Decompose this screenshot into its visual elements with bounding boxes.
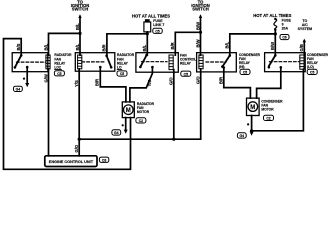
relay K2 coil xyxy=(78,55,82,69)
relay K5 switch arm xyxy=(269,55,275,66)
wire: branch to fan control relay coil xyxy=(175,32,200,55)
svg-text:RELAY: RELAY xyxy=(180,62,192,66)
label: CONDENSER FAN RELAY (HI) xyxy=(239,53,261,69)
node: TO IGNITION SWITCH (left) label xyxy=(71,0,90,12)
connector: C5 relay K3 xyxy=(181,71,191,76)
relay K4 switch pin dot xyxy=(229,54,232,57)
relay K3 switch arm xyxy=(140,55,146,67)
fuse: FUSE LINK 7 cap xyxy=(145,19,150,22)
svg-text:B/W: B/W xyxy=(195,22,200,30)
svg-text:C5: C5 xyxy=(155,29,159,33)
svg-text:20A: 20A xyxy=(282,27,289,31)
relay K1 switch pin dot xyxy=(20,54,23,57)
relay K3 dashed link xyxy=(142,61,168,63)
svg-text:SWITCH: SWITCH xyxy=(192,7,209,12)
wire: relay K1 coil to ECU G/W xyxy=(48,69,50,156)
junction: ignition2 / fan control relay coil branch xyxy=(199,31,202,34)
label: RADIATOR FAN RELAY LO2 xyxy=(54,53,72,70)
svg-text:B/R: B/R xyxy=(102,44,107,51)
node: TO A/C SYSTEM label xyxy=(298,19,312,31)
relay K1 dashed link xyxy=(17,61,46,63)
connector: C2 condenser fan motor xyxy=(264,115,274,120)
svg-text:LINK 7: LINK 7 xyxy=(153,23,164,27)
svg-text:LO2: LO2 xyxy=(54,66,61,70)
connector: C5 relay K5 xyxy=(307,69,317,74)
ground: splice dot near condenser motor ground xyxy=(247,123,249,125)
svg-text:Y/S: Y/S xyxy=(74,80,79,87)
svg-text:C2: C2 xyxy=(266,117,270,121)
ground: splice dot near K1 ground xyxy=(23,78,25,80)
wire: A/C system arrow up xyxy=(303,39,306,43)
svg-text:LO: LO xyxy=(117,66,122,70)
svg-text:B/L: B/L xyxy=(225,41,230,48)
motor M2 circle xyxy=(248,102,258,112)
svg-text:C2: C2 xyxy=(139,119,143,123)
relay K5: CONDENSER FAN RELAY (LO) box xyxy=(265,53,306,72)
fuse: FUSE LINK 7 body xyxy=(144,22,151,32)
svg-text:B/W: B/W xyxy=(195,39,200,47)
label: CONDENSER FAN MOTOR xyxy=(261,100,283,112)
relay K5 switch arm end dot xyxy=(268,66,271,69)
ground: arrow under radiator motor xyxy=(124,130,128,134)
wire: branch to condenser fan relay HI switch xyxy=(230,34,275,56)
junction: condenser ground bus xyxy=(250,129,253,132)
svg-text:B/R: B/R xyxy=(218,77,223,84)
relay K4: CONDENSER FAN RELAY (HI) box xyxy=(197,53,237,72)
svg-text:G/O: G/O xyxy=(196,76,201,84)
svg-text:B/R: B/R xyxy=(170,42,175,49)
wire: ignition feed 1 vertical B/L to radiator fan relay LO coil xyxy=(79,17,81,56)
label: FUSE LINK 7 xyxy=(153,19,164,27)
svg-text:B/L: B/L xyxy=(75,23,80,30)
wire: ignition feed 2 vertical B/W to condenser fan relay HI coil xyxy=(200,17,202,56)
svg-text:B/R: B/R xyxy=(95,79,100,86)
svg-text:B/L: B/L xyxy=(142,44,147,51)
wire: radiator motor ground lead xyxy=(125,118,127,130)
relay K3 switch pin dot xyxy=(145,54,148,57)
relay K5 coil xyxy=(300,55,304,69)
wire: relay K2 contact down-right to radiator fan motor B/R xyxy=(100,67,126,102)
svg-text:G/O: G/O xyxy=(74,144,79,152)
junction: fuse9 / condenser relay feeds xyxy=(274,32,277,35)
svg-text:B/W: B/W xyxy=(270,42,275,50)
relay K4 coil xyxy=(199,55,203,69)
svg-text:ENGINE CONTROL UNIT: ENGINE CONTROL UNIT xyxy=(49,160,94,164)
relay K3: FAN CONTROL RELAY box xyxy=(136,53,178,72)
relay K2 contact dot xyxy=(99,66,102,69)
svg-text:C6: C6 xyxy=(282,36,286,40)
svg-text:G4: G4 xyxy=(240,134,245,138)
wire: condenser motor ground lead xyxy=(251,116,253,131)
relay K2 switch arm xyxy=(107,56,112,68)
svg-text:B/L: B/L xyxy=(75,43,80,50)
relay K4 contact dot xyxy=(223,66,226,69)
motor M1: RADIATOR FAN MOTOR box xyxy=(122,102,134,118)
motor M1 circle xyxy=(124,105,134,115)
svg-text:(LO): (LO) xyxy=(307,65,314,69)
wire: ECU bus horizontal xyxy=(79,138,201,140)
junction: fuse link / relay feeds xyxy=(146,32,149,35)
wire: branch to radiator fan relay LO switch xyxy=(107,34,147,56)
wire: ignition feed 2 arrow up xyxy=(199,14,202,18)
relay K2 dashed link xyxy=(82,61,105,63)
relay K2 switch pin dot xyxy=(105,55,108,58)
relay K5 dashed link xyxy=(270,61,300,63)
label: RADIATOR FAN RELAY LO xyxy=(117,53,135,70)
svg-text:(HI): (HI) xyxy=(239,65,245,69)
relay K4 dashed link xyxy=(206,61,226,63)
relay K2: RADIATOR FAN RELAY LO box xyxy=(75,53,115,71)
relay K2 switch arm end dot xyxy=(110,66,113,69)
svg-text:G4: G4 xyxy=(16,87,21,91)
wire: fuse 9 down to junction xyxy=(274,30,276,34)
relay K1 switch arm xyxy=(15,55,21,67)
svg-text:HOT AT ALL TIMES: HOT AT ALL TIMES xyxy=(253,13,291,18)
ground: arrow under condenser motor xyxy=(250,132,254,136)
label: CONDENSER FAN RELAY (LO) xyxy=(307,53,329,69)
wire: fuse link 7 down to junction xyxy=(146,32,148,34)
wire: A/C feed to condenser fan relay LO coil G/B xyxy=(303,41,305,55)
relay K5 contact dot xyxy=(280,66,283,69)
label: RADIATOR FAN MOTOR xyxy=(137,102,155,114)
motor M2: CONDENSER FAN MOTOR box xyxy=(247,98,260,115)
ground: splice dot near radiator motor ground xyxy=(122,124,124,126)
wire: relay K4 contact to condenser fan motor B/R xyxy=(224,68,251,99)
relay K5 switch pin dot xyxy=(274,54,277,57)
ground: G4 label condenser motor xyxy=(237,133,246,138)
svg-text:SWITCH: SWITCH xyxy=(72,7,89,12)
wire: relay K3 coil down to ECU bus G/O xyxy=(173,70,175,140)
junction: ECU bus / K3 coil xyxy=(172,138,175,141)
relay K1 coil xyxy=(46,55,50,69)
svg-text:C5: C5 xyxy=(120,72,124,76)
svg-text:C5: C5 xyxy=(57,72,61,76)
connector: C5 relay K1 xyxy=(54,71,64,76)
connector: C5 relay K4 xyxy=(240,69,250,74)
label: FUSE 9 20A xyxy=(282,19,292,31)
relay K1 contact dot xyxy=(26,66,29,69)
wire: fuse 9 down to condenser fan relay LO switch xyxy=(274,34,276,56)
svg-text:M: M xyxy=(126,108,131,114)
svg-text:C5: C5 xyxy=(184,72,188,76)
svg-text:G/B: G/B xyxy=(299,44,304,51)
fuse: FUSE 9 20A symbol xyxy=(274,18,277,31)
ground: G4 label under relay K1 xyxy=(14,86,23,91)
svg-text:HOT AT ALL TIMES: HOT AT ALL TIMES xyxy=(132,14,170,19)
wire: left loop from relay1 switch common down left edge xyxy=(4,39,131,170)
connector: C2 radiator fan motor xyxy=(136,118,146,123)
connector: C6 at fuse 9 xyxy=(280,35,289,40)
junction: ignition1 / relay1 coil branch xyxy=(78,32,81,35)
svg-text:C8: C8 xyxy=(102,158,106,162)
connector: C5 relay K2 xyxy=(117,71,127,76)
svg-text:C5: C5 xyxy=(243,71,247,75)
relay K1: RADIATOR FAN RELAY No.2 box xyxy=(12,53,48,72)
wire: ignition feed 1 arrow up xyxy=(78,14,81,18)
wire: relay K4 coil down to ECU bus G/O xyxy=(200,69,202,139)
svg-text:C5: C5 xyxy=(310,71,314,75)
relay K3 coil xyxy=(169,55,173,70)
node: TO IGNITION SWITCH (center) label xyxy=(191,0,210,12)
wire: relay K2 coil down to ECU junction Y/S then G/O xyxy=(78,69,80,156)
wire: relay K5 coil down to ground bus xyxy=(252,69,304,131)
ground: arrow under relay K1 xyxy=(25,83,29,87)
svg-text:SYSTEM: SYSTEM xyxy=(298,27,312,31)
relay K4 switch arm xyxy=(222,56,229,67)
relay K4 switch arm end dot xyxy=(221,65,224,68)
svg-text:M: M xyxy=(250,105,255,111)
svg-text:MOTOR: MOTOR xyxy=(261,108,274,112)
svg-text:B/S: B/S xyxy=(16,43,21,50)
svg-text:G4: G4 xyxy=(114,131,119,135)
wire: fuse link down to fan control relay switch xyxy=(146,34,148,55)
ground: G4 label radiator motor xyxy=(112,130,121,135)
relay K1 switch arm end dot xyxy=(14,66,17,69)
svg-text:B/L: B/L xyxy=(43,43,48,50)
svg-text:MOTOR: MOTOR xyxy=(137,110,150,114)
ECU: ENGINE CONTROL UNIT box xyxy=(45,156,97,167)
relay K3 contact dot xyxy=(151,66,154,69)
wire: relay K3 contact diagonal to radiator fan motor Y/B xyxy=(130,67,153,102)
junction: ECU bus tap xyxy=(78,138,81,141)
connector: C5 at fuse link xyxy=(153,28,162,33)
svg-text:G/O: G/O xyxy=(169,77,174,85)
svg-text:G/W: G/W xyxy=(43,74,48,82)
connector: C8 at ECU xyxy=(99,157,108,162)
relay K3 switch arm end dot xyxy=(139,66,142,69)
wire: relay K1 contact to ground xyxy=(26,67,28,83)
wire: branch to radiator fan relay No.2 coil xyxy=(49,33,81,55)
label: FAN CONTROL RELAY xyxy=(180,53,196,65)
wire: relay K5 contact to condenser fan motor xyxy=(257,67,281,98)
svg-text:Y/B: Y/B xyxy=(147,80,152,87)
